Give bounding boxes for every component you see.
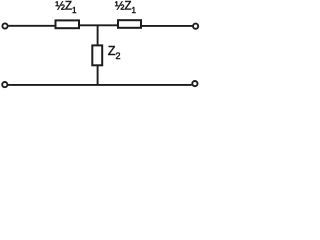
terminal bottom-left xyxy=(2,82,7,87)
terminal top-left xyxy=(2,23,7,28)
wire bottom rail xyxy=(8,84,192,86)
terminal top-right xyxy=(193,24,198,29)
wire Z2 lower lead xyxy=(97,65,99,85)
wire Z2 upper lead xyxy=(97,25,99,45)
terminal bottom-right xyxy=(192,81,197,86)
resistor box 1 (series, half Z1) xyxy=(56,20,80,28)
resistor box Z2 (shunt) xyxy=(92,45,102,65)
wire top rail right segment xyxy=(141,25,193,27)
wire top rail left segment xyxy=(8,25,55,27)
wire top rail middle segment xyxy=(79,24,118,26)
resistor box 2 (series, half Z1) xyxy=(118,20,141,28)
